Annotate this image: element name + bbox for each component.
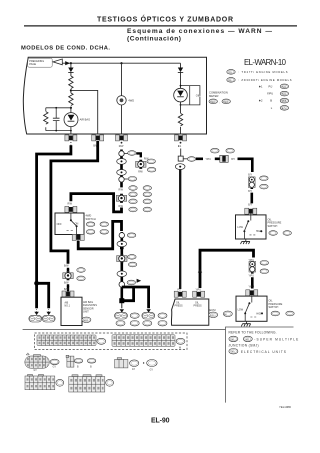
connector inline row <box>220 155 228 162</box>
svg-text:ELECTRICAL UNITS: ELECTRICAL UNITS <box>241 350 286 354</box>
svg-text:: TD27Ti ENGINE MODELS: : TD27Ti ENGINE MODELS <box>239 70 288 74</box>
wire row to B/Y chain <box>238 159 253 172</box>
svg-text:JUNCTION (SMJ): JUNCTION (SMJ) <box>229 343 259 347</box>
label PRECEDING PAGE frame <box>28 58 53 67</box>
svg-text:R/W: R/W <box>68 203 73 205</box>
code ovals above row <box>211 148 219 153</box>
svg-text:GY: GY <box>132 369 136 371</box>
svg-text:AIR BAG: AIR BAG <box>80 118 91 122</box>
diode D1 <box>68 68 73 73</box>
meter code oval M23 <box>222 99 230 104</box>
svg-text:✱1: ✱1 <box>178 144 182 148</box>
svg-text:L: L <box>271 106 273 110</box>
code oval <box>77 268 85 273</box>
svg-text:B/Y: B/Y <box>248 191 252 193</box>
joint lens <box>175 164 185 170</box>
node top rail / 4WD branch <box>120 62 122 64</box>
resistor R3 <box>44 112 48 125</box>
code oval <box>147 167 155 172</box>
wire bridge <box>200 250 254 288</box>
wire <box>180 127 182 135</box>
connector small D <box>115 358 128 368</box>
wire chain <box>251 188 254 203</box>
svg-text:B: B <box>77 366 79 368</box>
arrow to page <box>47 312 51 315</box>
connector grid M23 <box>112 335 175 347</box>
wire branch right to page <box>122 287 149 308</box>
code oval <box>128 255 136 260</box>
resistor R4 <box>178 113 182 126</box>
code oval row 2 <box>116 321 125 326</box>
svg-text:B/Y: B/Y <box>248 175 252 177</box>
code oval M22 <box>97 338 106 344</box>
connector inline B/W <box>63 271 73 280</box>
connector joint circle <box>119 177 124 182</box>
wire dogleg to 4wd switch <box>71 194 122 212</box>
connector small B <box>66 355 74 367</box>
node joint <box>120 247 124 250</box>
code oval M2 <box>243 336 252 341</box>
svg-text:,: , <box>219 101 220 104</box>
connector switch bottom <box>72 234 84 240</box>
code oval <box>128 262 136 267</box>
connector meter pin (4WD) <box>116 135 128 141</box>
code oval <box>106 379 114 386</box>
wire switch output <box>78 221 121 248</box>
connector joint circle <box>119 282 125 288</box>
svg-text:GY: GY <box>34 370 38 372</box>
capacitor C1 <box>53 118 60 120</box>
separator line above connector strip <box>23 329 226 331</box>
wire <box>180 102 182 113</box>
wire chain <box>251 272 254 288</box>
svg-text:EL-90: EL-90 <box>151 418 170 425</box>
wire <box>70 72 72 76</box>
svg-text:B: B <box>270 99 272 103</box>
wire airbag lamp harness <box>37 145 71 308</box>
svg-text:-SUPER MULTIPLE: -SUPER MULTIPLE <box>254 338 298 342</box>
4WD indicator lamp <box>117 96 126 105</box>
ECM box <box>171 299 208 325</box>
AIR BAG warning lamp <box>64 113 78 127</box>
connector joint circle <box>119 233 124 238</box>
page connector open arrow <box>53 59 62 65</box>
code oval <box>50 359 59 364</box>
connector double circle <box>249 261 256 272</box>
code oval <box>130 313 139 318</box>
oil pressure switch box (upper) <box>236 215 267 239</box>
connector inline <box>117 254 127 263</box>
svg-text:✱1: ✱1 <box>259 84 263 88</box>
connector inline M160 <box>116 194 126 203</box>
code oval <box>130 360 139 367</box>
resistor R1 <box>69 76 73 89</box>
node oil top <box>180 85 182 87</box>
svg-text:EL-WARN-10: EL-WARN-10 <box>244 58 287 67</box>
connector switch top <box>65 206 77 212</box>
wire top rail <box>62 62 180 64</box>
connector switch top <box>246 290 258 296</box>
terminator double oval B5 <box>42 315 55 322</box>
switch internals <box>251 295 253 302</box>
joint lens <box>117 271 127 277</box>
connector square F <box>178 156 183 161</box>
svg-text:: ZD30DDTi ENGINE MODELS: : ZD30DDTi ENGINE MODELS <box>239 78 292 82</box>
code oval <box>127 280 135 285</box>
wire tap to second column <box>71 90 98 134</box>
wire lamp group left legs <box>46 108 56 131</box>
svg-text:LOW: LOW <box>238 308 244 311</box>
svg-text:B/W: B/W <box>64 265 69 268</box>
svg-text:(Continuación): (Continuación) <box>127 36 181 43</box>
node tap junction <box>70 89 72 91</box>
code oval <box>260 269 268 274</box>
code oval M5 <box>229 349 238 354</box>
code oval <box>77 276 85 281</box>
wire stub <box>124 178 128 180</box>
connector grid row3 item2 <box>69 375 105 392</box>
dash <box>121 142 123 144</box>
unit code oval <box>82 317 91 322</box>
svg-text:Y/PU: Y/PU <box>249 275 255 277</box>
wire <box>70 107 72 113</box>
node lamp group top <box>70 107 72 109</box>
code oval <box>271 311 279 316</box>
code oval switch left <box>223 311 232 316</box>
joint lens <box>117 241 127 247</box>
svg-text:ON: ON <box>75 222 79 225</box>
svg-text:TESTIGOS ÓPTICOS Y ZUMBADOR: TESTIGOS ÓPTICOS Y ZUMBADOR <box>97 14 233 23</box>
svg-text:,: , <box>240 338 241 342</box>
wire <box>70 90 72 94</box>
wire lamp group top rail <box>46 107 71 109</box>
code oval ECM <box>209 312 218 317</box>
svg-text:4WD: 4WD <box>128 99 134 103</box>
dot <box>143 362 144 363</box>
direction arrow up <box>198 269 202 272</box>
ground <box>241 239 250 244</box>
wire lever to bottom <box>76 226 78 234</box>
code oval <box>269 231 277 236</box>
terminator double oval M95 <box>29 315 42 322</box>
svg-text:HIGH: HIGH <box>256 312 262 315</box>
wire chain lower <box>121 232 124 299</box>
diode D2 <box>178 68 183 73</box>
wire airbag column upper <box>70 63 72 67</box>
wire to ground <box>244 313 246 321</box>
code oval M73 <box>128 151 136 156</box>
svg-text:B: B <box>90 366 92 368</box>
wire OIL column top <box>180 63 182 67</box>
AIR BAG diagnosis sensor unit box <box>61 297 82 325</box>
joint lens <box>117 170 127 176</box>
direction arrow right <box>65 61 70 65</box>
node dot <box>67 285 69 287</box>
joint lens <box>117 159 127 165</box>
node top rail / airbag branch <box>70 62 72 64</box>
wire lamp group bottom rail <box>46 130 71 132</box>
dashes <box>37 309 49 312</box>
svg-text:F/PU: F/PU <box>267 92 273 96</box>
connector joint circle <box>119 151 124 156</box>
connector switch top <box>245 208 257 214</box>
wire 4WD lamp to meter edge <box>121 105 123 135</box>
svg-text:B/Y: B/Y <box>231 159 235 161</box>
4WD switch box <box>55 213 84 235</box>
wire airbag branch <box>37 283 49 308</box>
code oval <box>74 359 82 364</box>
connector grid row3 item1 <box>25 375 55 390</box>
switch code ovals <box>86 222 94 227</box>
ground <box>241 321 250 326</box>
svg-text:GY: GY <box>150 369 154 371</box>
terminator double oval <box>142 312 155 319</box>
switch dashes <box>67 230 73 232</box>
svg-text:R/W: R/W <box>119 190 124 192</box>
svg-text:Y/PU: Y/PU <box>249 286 255 288</box>
svg-text:OIL: OIL <box>196 93 201 97</box>
terminator double oval <box>115 312 128 319</box>
dashes below airbag pin <box>70 142 72 146</box>
legend oval TD <box>227 70 235 75</box>
title underline <box>24 25 297 27</box>
code oval <box>147 159 155 164</box>
legend oval ZD <box>227 78 235 83</box>
connector unit pin 15 <box>62 291 74 297</box>
svg-text:B/W: B/W <box>64 288 69 291</box>
wire <box>180 72 182 88</box>
arrow to page <box>120 309 124 312</box>
wire PU to ECM <box>179 170 181 289</box>
code oval <box>260 184 268 189</box>
node airbag wire split <box>34 281 39 286</box>
svg-text:B/W: B/W <box>64 281 69 284</box>
node square <box>119 298 124 303</box>
code oval <box>128 177 136 182</box>
code oval <box>56 379 64 386</box>
code oval M1 <box>229 336 238 341</box>
svg-text:PAGE: PAGE <box>29 63 36 66</box>
svg-text:SWITCH: SWITCH <box>268 225 278 228</box>
wire stub to code <box>124 153 127 155</box>
wire PU into ECM <box>179 288 181 289</box>
code oval TD <box>283 231 291 236</box>
node cap top <box>55 107 57 109</box>
combination meter box outline <box>23 57 206 134</box>
arrow to page <box>146 309 150 312</box>
connector meter pin (oil) <box>175 135 187 141</box>
svg-text:COMBINATION: COMBINATION <box>209 91 228 95</box>
svg-text:SWITCH: SWITCH <box>86 217 96 221</box>
svg-text:R/W: R/W <box>138 172 143 174</box>
svg-text:W: W <box>179 347 182 349</box>
wire 4wd chain upper <box>120 150 123 188</box>
oil lamp shunt box <box>181 86 200 105</box>
svg-text:ECM: ECM <box>210 308 217 312</box>
wire to ground <box>243 231 245 239</box>
wire node down <box>121 303 123 308</box>
wire branch to spur connector <box>136 153 141 157</box>
wire branch from node up <box>122 288 134 301</box>
code oval ZD <box>286 311 294 316</box>
connector round M66 <box>25 355 50 369</box>
node cap bottom <box>55 130 57 132</box>
switch internals <box>250 213 252 221</box>
wire tap harness <box>51 141 98 264</box>
wire Y/PU row <box>196 158 220 161</box>
svg-text:NO.1: NO.1 <box>65 306 71 308</box>
svg-text:YEL108D: YEL108D <box>279 405 291 409</box>
refer box <box>226 327 294 403</box>
oil pressure switch box (lower) <box>236 296 267 321</box>
connector ECM pin <box>193 291 205 297</box>
wire 4WD column <box>121 63 123 95</box>
wire lamp to meter edge <box>70 127 72 135</box>
svg-text:ZD: ZD <box>229 80 232 82</box>
svg-text:✱2: ✱2 <box>259 99 263 103</box>
OIL warning lamp <box>174 88 188 102</box>
node oil bottom <box>180 104 182 106</box>
svg-text:P/J: P/J <box>269 84 273 88</box>
connector inline spur <box>136 160 146 169</box>
code oval M23 <box>176 338 185 344</box>
svg-text:A/B: A/B <box>65 301 69 304</box>
direction arrow right <box>137 279 142 283</box>
svg-text:SWITCH: SWITCH <box>269 306 279 309</box>
connector meter pin (tap) <box>92 135 104 141</box>
code oval <box>158 313 167 318</box>
svg-text:REFER TO THE FOLLOWING.: REFER TO THE FOLLOWING. <box>229 331 277 335</box>
code oval <box>147 360 157 367</box>
svg-text:UNIT: UNIT <box>83 311 89 314</box>
wire <box>67 268 69 292</box>
connector grid M22 <box>37 335 96 346</box>
svg-text:TD: TD <box>229 72 232 74</box>
svg-text:METER: METER <box>209 94 218 98</box>
code oval grid <box>129 186 137 191</box>
svg-text:MODELOS DE COND. DCHA.: MODELOS DE COND. DCHA. <box>21 45 110 51</box>
code oval <box>260 261 268 266</box>
code oval <box>260 176 268 181</box>
svg-text:PRESS: PRESS <box>194 305 203 308</box>
connector meter pin (airbag) <box>65 135 77 141</box>
dash <box>180 142 182 144</box>
resistor R2 <box>69 93 73 106</box>
svg-text:PRESS: PRESS <box>175 305 184 308</box>
connector ECM pin <box>174 291 186 297</box>
code oval inline <box>187 157 195 162</box>
connector double circle <box>249 177 256 188</box>
svg-text:GY: GY <box>53 367 57 369</box>
svg-text:LOW: LOW <box>237 226 243 229</box>
svg-text:R/W: R/W <box>119 145 124 148</box>
svg-text:Esquema de conexiones — WARN —: Esquema de conexiones — WARN — <box>127 28 272 35</box>
switch lever <box>70 213 72 220</box>
arrow to page <box>34 312 38 315</box>
svg-text:HIGH: HIGH <box>256 230 262 233</box>
svg-text:Y/PU: Y/PU <box>206 159 212 161</box>
code oval <box>127 233 135 238</box>
code oval <box>87 359 95 364</box>
svg-text:B/Y: B/Y <box>248 204 252 206</box>
node lamp bottom <box>70 130 72 132</box>
node dot <box>67 269 69 271</box>
svg-text:OFF: OFF <box>57 223 62 226</box>
meter code oval M22 <box>209 99 217 104</box>
